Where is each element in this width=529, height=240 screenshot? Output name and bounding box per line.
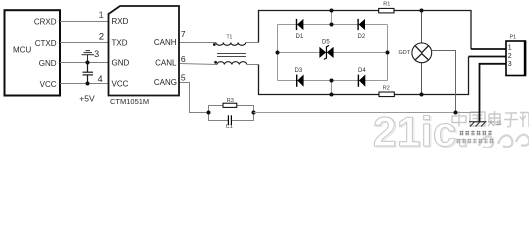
svg-text:3: 3 (508, 61, 512, 68)
svg-text:C1: C1 (226, 124, 233, 130)
svg-text:VCC: VCC (112, 80, 129, 89)
transceiver U1 CTM1051M box (109, 6, 180, 96)
node right bus mid junction (386, 51, 390, 55)
GDT vertical top lead (421, 11, 423, 44)
bridge bottom column wire (331, 81, 333, 95)
T1 core lines (217, 53, 246, 55)
svg-text:D4: D4 (358, 68, 366, 74)
T1 bottom winding (217, 62, 247, 65)
watermark script (479, 135, 529, 148)
node earth line junction (454, 111, 458, 115)
svg-text:7: 7 (181, 29, 186, 39)
svg-text:D2: D2 (358, 34, 366, 40)
bridge right bus (387, 25, 389, 81)
wire CRXD-RXD (60, 21, 109, 23)
bridge bottom row wire (278, 80, 388, 82)
svg-text:1: 1 (99, 10, 104, 21)
node GDT bottom junction (420, 93, 424, 97)
node top row junction (330, 23, 334, 27)
svg-text:VCC: VCC (40, 80, 57, 89)
node top rail junction (330, 9, 334, 13)
resistor R1 (379, 2, 394, 13)
wire T1 bottom out (247, 64, 259, 66)
svg-text:CANG: CANG (154, 78, 177, 87)
node R3C1 right (252, 111, 256, 115)
svg-text:1: 1 (508, 45, 512, 52)
svg-text:P1: P1 (510, 35, 517, 41)
wire CANL to T1 (180, 64, 217, 65)
svg-text:D5: D5 (322, 39, 330, 45)
svg-text:3: 3 (94, 49, 99, 59)
TVS diode D5 (319, 39, 333, 59)
svg-text:D3: D3 (295, 68, 303, 74)
node R3C1 left (207, 111, 211, 115)
wire pin2 to P1 (469, 56, 507, 58)
capacitor C1 (226, 115, 233, 130)
wire VCC (60, 83, 109, 85)
node bottom row junction (330, 79, 334, 83)
wire R3C1 to earth line (254, 112, 480, 114)
wire pin3 to earth (480, 64, 507, 122)
diode D1 (296, 19, 304, 40)
svg-text:2: 2 (508, 53, 512, 60)
svg-text:CANH: CANH (154, 38, 177, 47)
wire pin1 to P1 (471, 48, 506, 50)
node GDT top junction (420, 9, 424, 13)
svg-text:T1: T1 (227, 34, 233, 40)
svg-text:CTM1051M: CTM1051M (110, 97, 149, 106)
bridge top row wire (278, 24, 388, 26)
earth label (da di) (488, 120, 501, 127)
T1 top polarity dot (213, 43, 216, 46)
node left bus mid junction (276, 51, 280, 55)
svg-text:+5V: +5V (79, 94, 95, 104)
bridge middle rail wire (278, 52, 388, 54)
svg-text:CRXD: CRXD (34, 18, 57, 27)
wire CTXD-TXD (60, 42, 109, 44)
wire CANH to T1 (180, 42, 216, 44)
svg-text:GND: GND (39, 59, 57, 68)
svg-text:GND: GND (112, 59, 130, 68)
earth symbol (469, 122, 487, 127)
gas discharge tube GDT (399, 43, 432, 63)
ground symbol above GND wire (82, 51, 95, 63)
caption text line 1 (460, 130, 493, 135)
GDT vertical bottom lead (421, 63, 423, 95)
svg-text:MCU: MCU (13, 46, 31, 55)
svg-text:D1: D1 (296, 34, 304, 40)
diode D3 (295, 68, 304, 87)
resistor R3 (223, 98, 237, 108)
capacitor between GND and VCC (decoupling) (83, 63, 94, 84)
node GND junction (86, 61, 90, 65)
resistor R2 (379, 85, 394, 96)
node VCC junction (86, 82, 90, 86)
svg-text:R2: R2 (383, 85, 390, 91)
wire R3 branch (209, 106, 254, 113)
svg-text:5: 5 (181, 72, 186, 82)
svg-text:CTXD: CTXD (35, 39, 57, 48)
connector P1 (506, 35, 526, 76)
MCU box (5, 10, 61, 95)
GDT side lead to earth (432, 51, 456, 113)
T1 bottom polarity dot (214, 61, 217, 64)
svg-text:R3: R3 (227, 98, 234, 104)
svg-text:RXD: RXD (112, 17, 129, 26)
wire CANL rail (bottom) (259, 57, 469, 95)
svg-text:CANL: CANL (155, 59, 177, 68)
wire GND (60, 62, 109, 64)
svg-text:TXD: TXD (112, 39, 128, 48)
bridge top column wire (331, 11, 333, 25)
diode D4 (358, 68, 366, 87)
wire C1 branch (209, 113, 254, 121)
caption text line 2 (456, 138, 493, 143)
node bottom rail junction (330, 93, 334, 97)
diode D2 (358, 19, 366, 40)
svg-text:4: 4 (98, 74, 103, 84)
wire CANH rail (top) (259, 11, 472, 50)
svg-text:6: 6 (181, 54, 186, 64)
T1 top winding (216, 43, 246, 46)
svg-text:GDT: GDT (399, 50, 411, 56)
watermark chinese characters (452, 111, 529, 127)
bridge left bus (277, 25, 279, 81)
svg-text:R1: R1 (383, 2, 390, 8)
wire T1 top out (246, 42, 259, 44)
wire CANG from pin5 (180, 83, 209, 113)
svg-text:2: 2 (99, 32, 104, 43)
